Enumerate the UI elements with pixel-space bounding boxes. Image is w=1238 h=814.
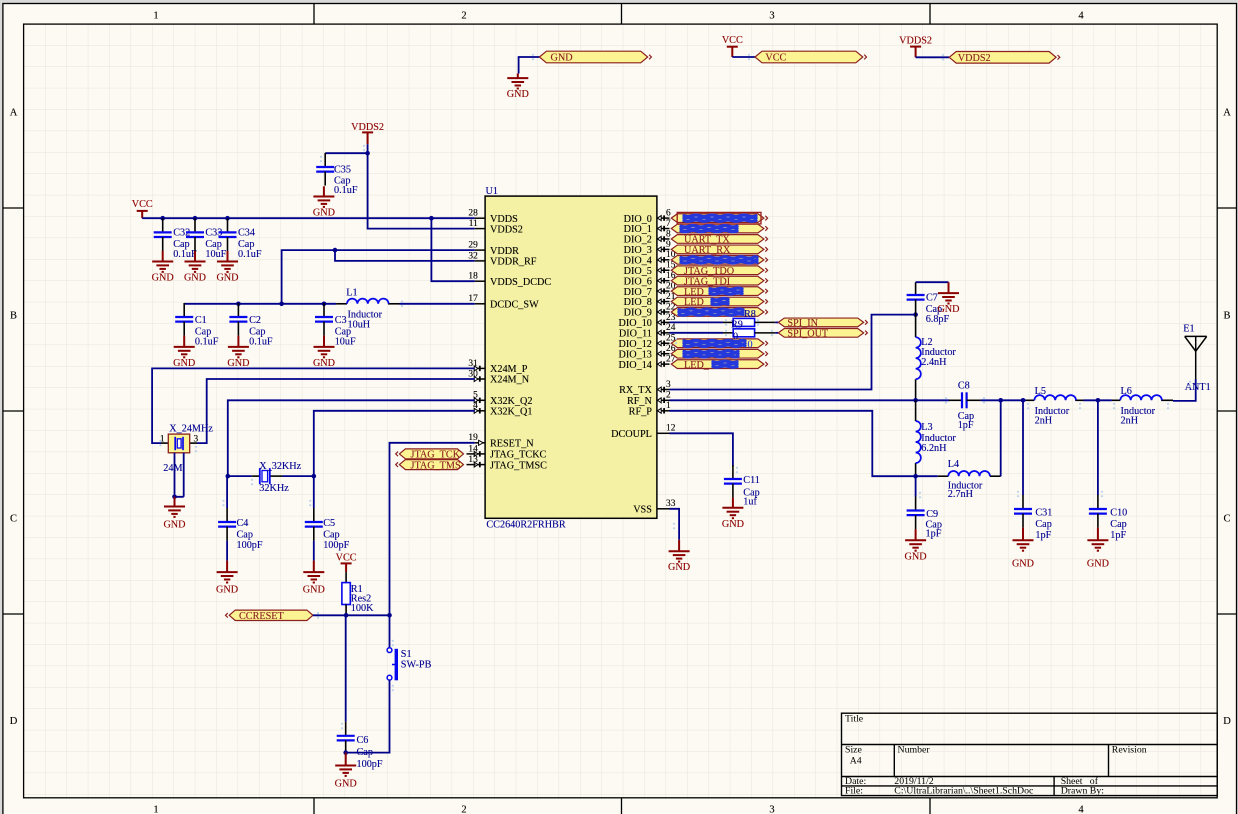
svg-text:1: 1 (153, 805, 158, 814)
pin 27 DIO_14 (657, 361, 670, 366)
svg-text:1pF: 1pF (1110, 530, 1126, 541)
svg-text:GND: GND (551, 53, 573, 64)
svg-text:JTAG_TCK: JTAG_TCK (411, 450, 461, 461)
svg-text:GND: GND (937, 304, 959, 315)
svg-text:1pF: 1pF (926, 528, 942, 539)
wire C7 to ground (916, 281, 949, 283)
ground VSS (669, 540, 690, 562)
capacitor C4 (226, 476, 228, 508)
inductor L1 (336, 303, 399, 305)
pin 4 X32K_Q1 (474, 408, 485, 413)
svg-text:6.2nH: 6.2nH (921, 443, 947, 454)
wire C35 tap (325, 152, 367, 154)
svg-text:DIO_14: DIO_14 (619, 360, 652, 371)
svg-text:GND: GND (1012, 559, 1034, 570)
wire C1 C2 C3 rail (184, 303, 336, 305)
redaction scribble DIO_12 (684, 340, 745, 346)
svg-text:Cap: Cap (1035, 519, 1051, 530)
redaction scribble DIO_9 (679, 309, 743, 315)
redaction scribble DIO_13 (684, 351, 738, 357)
pin 17 DCDC_SW (475, 303, 485, 305)
svg-text:2: 2 (666, 391, 671, 401)
resistor R1 (342, 572, 350, 615)
capacitor C35 (316, 153, 334, 186)
svg-text:GND: GND (507, 89, 529, 100)
svg-text:GND: GND (163, 520, 185, 531)
svg-text:C3: C3 (335, 315, 347, 326)
ground C33 (185, 251, 206, 272)
svg-text:LED: LED (684, 297, 704, 308)
svg-text:VDDS: VDDS (490, 214, 518, 225)
inductor L4 (938, 475, 1001, 477)
crystal X_24MHz (161, 434, 197, 453)
wire VDDR net (282, 250, 475, 304)
svg-text:VDDS2: VDDS2 (899, 36, 932, 47)
junction C33 (193, 216, 198, 221)
capacitor C9 (915, 476, 917, 496)
svg-text:JTAG_TMSC: JTAG_TMSC (490, 460, 547, 471)
port DIO_13 net label (671, 349, 767, 358)
svg-text:24: 24 (666, 323, 676, 333)
port CCRESET (226, 610, 313, 620)
ground top left of GND port (507, 74, 528, 89)
port DIO_5 net label (671, 266, 767, 275)
svg-text:4: 4 (473, 401, 478, 411)
svg-text:DIO_10: DIO_10 (619, 318, 652, 329)
pin 16 DIO_6 (657, 278, 670, 283)
junction L3 L4 RF_P (913, 474, 918, 479)
svg-text:DIO_8: DIO_8 (624, 297, 652, 308)
svg-text:D: D (1223, 716, 1231, 727)
svg-text:LED_: LED_ (684, 360, 710, 371)
svg-text:SW-PB: SW-PB (401, 660, 432, 671)
svg-text:UART_TX: UART_TX (684, 235, 730, 246)
pin 12 DCOUPL (657, 432, 670, 434)
wire L4 riser (1000, 400, 1002, 476)
svg-text:CCRESET: CCRESET (239, 611, 284, 622)
port VDDS2 top (949, 52, 1060, 64)
svg-text:3: 3 (769, 11, 774, 22)
pin 15 DIO_5 (657, 268, 670, 273)
svg-text:DCOUPL: DCOUPL (611, 429, 652, 440)
inductor L2 (915, 315, 917, 401)
svg-text:0.1uF: 0.1uF (173, 249, 197, 260)
junction VDDS2 C35 (365, 151, 370, 156)
pin 8 DIO_2 (657, 236, 670, 241)
svg-text:0.1uF: 0.1uF (334, 185, 358, 196)
svg-text:GND: GND (313, 358, 335, 369)
svg-text:B: B (1223, 311, 1230, 322)
svg-text:GND: GND (216, 273, 238, 284)
svg-text:JTAG_TCKC: JTAG_TCKC (490, 450, 547, 461)
svg-text:GND: GND (173, 358, 195, 369)
svg-text:VCC: VCC (765, 53, 786, 64)
svg-text:SPI_IN: SPI_IN (787, 318, 818, 329)
svg-text:DIO_11: DIO_11 (619, 329, 652, 340)
svg-text:ANT1: ANT1 (1185, 382, 1211, 393)
svg-text:VDDS_DCDC: VDDS_DCDC (490, 277, 551, 288)
wire X32K_Q1 (314, 411, 475, 476)
svg-text:0.1uF: 0.1uF (238, 249, 262, 260)
ground C2 (228, 336, 249, 358)
svg-text:2nH: 2nH (1121, 416, 1139, 427)
port DIO_6 net label (671, 276, 767, 285)
svg-text:29: 29 (468, 241, 478, 251)
port DIO_12 net label (671, 339, 767, 348)
junction VDDR_RF branch (333, 248, 338, 253)
ground C4 (217, 561, 238, 583)
port DIO_9 net label (671, 308, 767, 317)
svg-text:File:: File: (845, 785, 863, 796)
title block frame (842, 713, 1218, 795)
svg-text:18: 18 (468, 272, 478, 282)
pin 18 VDDS_DCDC (475, 280, 485, 282)
capacitor C6 (345, 615, 347, 722)
svg-text:1: 1 (160, 434, 165, 444)
wire X24M_N (197, 379, 475, 443)
wire VDDS2 port (916, 56, 950, 58)
wire C4 to ground (226, 541, 228, 561)
svg-text:GND: GND (303, 585, 325, 596)
svg-text:32: 32 (468, 251, 478, 261)
port VCC top (755, 51, 867, 63)
svg-text:X24M_N: X24M_N (490, 375, 530, 386)
svg-text:C10: C10 (1110, 508, 1127, 519)
svg-text:Drawn By:: Drawn By: (1061, 785, 1104, 796)
junction C3 (322, 302, 327, 307)
svg-text:DIO_13: DIO_13 (619, 349, 652, 360)
wire L1 to DCDC_SW (400, 303, 475, 305)
junction X32K left (226, 474, 231, 479)
capacitor C34 (219, 218, 237, 251)
zone dividers left (3, 207, 24, 209)
resistor R10 (723, 329, 775, 337)
redaction scribble DIO_0 (684, 215, 756, 221)
junction C34 (225, 216, 230, 221)
svg-text:GND: GND (313, 208, 335, 219)
svg-text:6.8pF: 6.8pF (926, 314, 950, 325)
ground C3 (314, 336, 335, 358)
antenna E1 (1185, 336, 1207, 379)
junction C2 (236, 302, 241, 307)
port JTAG_TMS (396, 460, 464, 470)
ground C10 (1087, 528, 1108, 551)
svg-text:DIO_6: DIO_6 (624, 276, 652, 287)
pin 26 DIO_13 (657, 351, 670, 356)
redaction scribble DIO_14 (713, 361, 737, 367)
wire VDDR_RF branch (335, 250, 475, 261)
wire L5 to L6 (1084, 399, 1112, 401)
port DIO_14 net label (671, 360, 767, 369)
svg-text:24M: 24M (163, 463, 182, 474)
ground C9 (905, 529, 926, 551)
inductor L5 (1026, 399, 1084, 401)
svg-text:3: 3 (666, 380, 671, 390)
capacitor C1 (175, 303, 193, 336)
svg-text:17: 17 (468, 294, 478, 304)
svg-text:C35: C35 (334, 165, 351, 176)
wire C5 to ground (313, 541, 315, 561)
pin 23 DIO_10 (657, 320, 670, 325)
svg-text:32KHz: 32KHz (259, 483, 289, 494)
capacitor C7 (907, 282, 925, 314)
wire S1 bottom (346, 680, 390, 752)
svg-text:12: 12 (666, 424, 676, 434)
capacitor C11 (724, 465, 742, 498)
wire L6 to antenna (1173, 379, 1196, 401)
svg-text:10uH: 10uH (348, 320, 371, 331)
svg-text:Revision: Revision (1112, 745, 1147, 756)
svg-text:0.1uF: 0.1uF (249, 337, 273, 348)
pin 6 DIO_0 (657, 215, 670, 220)
redaction scribble DIO_1 (681, 226, 737, 232)
power VCC at R1 (341, 563, 352, 572)
ground C32 (152, 251, 173, 272)
svg-text:2.4nH: 2.4nH (921, 357, 947, 368)
redaction scribble DIO_4 (681, 257, 757, 263)
capacitor C33 (186, 218, 204, 251)
pin 25 DIO_12 (657, 341, 670, 346)
junction C31 (1021, 398, 1026, 403)
svg-text:Size: Size (845, 745, 863, 756)
port DIO_2 net label (671, 235, 767, 244)
svg-text:Cap: Cap (1110, 519, 1126, 530)
wire L4 left (916, 475, 938, 477)
svg-text:VDDS2: VDDS2 (351, 122, 384, 133)
port GND top (539, 51, 651, 63)
svg-text:L5: L5 (1035, 386, 1046, 397)
svg-text:C: C (1223, 514, 1230, 525)
ground C6 (335, 753, 356, 776)
wire VDDS2 vertical to pin 11 (368, 144, 475, 228)
svg-text:DIO_9: DIO_9 (624, 308, 652, 319)
wire RX_TX to match (670, 315, 916, 390)
svg-text:CC2640R2FRHBR: CC2640R2FRHBR (486, 520, 565, 531)
wire RF_N (670, 399, 950, 401)
svg-text:1pF: 1pF (958, 420, 974, 431)
svg-text:C:\UltraLibrarian\..\Sheet1.Sc: C:\UltraLibrarian\..\Sheet1.SchDoc (894, 785, 1034, 796)
svg-text:U1: U1 (486, 186, 498, 197)
ground C5 (303, 561, 324, 583)
port JTAG_TCK (396, 449, 464, 459)
pin 24 DIO_11 (657, 330, 670, 335)
svg-text:31: 31 (468, 359, 478, 369)
port DIO_8 net label (671, 297, 767, 306)
ground C11 (722, 498, 743, 519)
pin 13 JTAG_TMSC (474, 462, 485, 467)
svg-text:2: 2 (461, 805, 466, 814)
wire DIO_10 to R9 (670, 321, 724, 323)
svg-text:DIO_12: DIO_12 (619, 339, 652, 350)
svg-text:RF_P: RF_P (629, 407, 653, 418)
svg-text:JTAG_TDI: JTAG_TDI (684, 276, 731, 287)
port DIO_3 net label (671, 245, 767, 254)
wire RF_P (670, 411, 916, 476)
svg-text:2: 2 (461, 11, 466, 22)
ground C34 (217, 251, 238, 272)
svg-text:3: 3 (769, 805, 774, 814)
wire X32K_Q2 (228, 400, 475, 476)
capacitor C32 (154, 218, 172, 251)
wire VSS to ground (670, 509, 680, 540)
svg-text:VDDS2: VDDS2 (958, 53, 991, 64)
wire GND port top (519, 57, 540, 74)
svg-text:GND: GND (722, 519, 744, 530)
wire R10 to SPI_OUT (775, 332, 778, 334)
capacitor C3 (315, 303, 333, 336)
wire C8 to L5 (981, 399, 1026, 401)
port DIO_7 net label (671, 287, 767, 296)
svg-text:B: B (10, 311, 17, 322)
junction C7 L2 (913, 312, 918, 317)
svg-text:DIO_7: DIO_7 (624, 287, 652, 298)
power VDDS2 top (910, 47, 921, 58)
svg-text:C1: C1 (195, 315, 207, 326)
svg-text:C34: C34 (238, 227, 255, 238)
wire DIO_11 to R10 (670, 332, 724, 334)
junction C6 ground (343, 750, 348, 755)
wire RESET_N (390, 443, 475, 648)
capacitor C5 (313, 476, 315, 508)
wire DCOUPL to C11 (670, 433, 733, 466)
svg-text:C4: C4 (237, 518, 249, 529)
svg-text:100pF: 100pF (357, 759, 383, 770)
svg-text:30: 30 (468, 369, 478, 379)
pin 28 VDDS (475, 217, 485, 219)
svg-text:RESET_N: RESET_N (490, 439, 534, 450)
svg-text:1: 1 (153, 11, 158, 22)
ground X_24MHz (164, 497, 185, 517)
wire VDDS rail (142, 217, 475, 219)
wire X24M ground pins (175, 453, 184, 497)
pin 1 RF_P (657, 408, 670, 413)
svg-text:X32K_Q2: X32K_Q2 (490, 396, 532, 407)
pin 7 DIO_1 (657, 226, 670, 231)
svg-text:VDDS2: VDDS2 (490, 224, 523, 235)
svg-text:1: 1 (666, 401, 671, 411)
ground C7 (938, 282, 959, 303)
svg-text:28: 28 (468, 209, 478, 219)
junction RESET node (387, 613, 392, 618)
wire VCC port (732, 56, 755, 58)
svg-text:GND: GND (1087, 559, 1109, 570)
svg-text:0: 0 (748, 339, 753, 350)
redaction scribble DIO_7 (710, 288, 742, 294)
resistor R9 (723, 318, 775, 326)
svg-text:0.1uF: 0.1uF (195, 337, 219, 348)
svg-text:VDDR_RF: VDDR_RF (490, 257, 537, 268)
pin 5 X32K_Q2 (474, 398, 485, 403)
power VCC top (727, 47, 738, 57)
switch S1 (387, 648, 396, 681)
svg-text:3: 3 (194, 434, 199, 444)
svg-text:19: 19 (468, 433, 478, 443)
svg-text:0: 0 (733, 331, 738, 342)
capacitor C2 (229, 303, 247, 336)
svg-text:100pF: 100pF (323, 540, 349, 551)
svg-text:VCC: VCC (132, 199, 153, 210)
svg-text:RF_N: RF_N (627, 396, 653, 407)
svg-text:X_32KHz: X_32KHz (259, 461, 301, 472)
ground C31 (1013, 528, 1034, 551)
svg-text:A4: A4 (850, 756, 862, 767)
power VCC left rail (137, 211, 148, 218)
pin 22 DIO_9 (657, 309, 670, 314)
svg-text:5: 5 (473, 391, 478, 401)
wire X32K rail (228, 475, 314, 477)
inductor L6 (1112, 399, 1173, 401)
svg-text:GND: GND (216, 585, 238, 596)
wire R9 to SPI_IN (775, 321, 778, 323)
zone dividers bottom (313, 798, 315, 814)
svg-text:L6: L6 (1121, 386, 1132, 397)
svg-text:10uF: 10uF (205, 249, 226, 260)
power VDDS2 at C35 (362, 132, 373, 144)
svg-text:C5: C5 (323, 518, 335, 529)
pin 29 VDDR (475, 249, 485, 251)
zone dividers right (1217, 207, 1236, 209)
svg-text:4: 4 (1078, 805, 1084, 814)
svg-text:1pF: 1pF (1035, 530, 1051, 541)
pin 9 DIO_3 (657, 247, 670, 252)
svg-text:SPI_OUT: SPI_OUT (787, 329, 829, 340)
svg-text:VCC: VCC (336, 553, 357, 564)
junction VDDS_DCDC branch (429, 216, 434, 221)
port SPI_IN (778, 318, 867, 327)
svg-text:DIO_5: DIO_5 (624, 266, 652, 277)
junction X24M ground (172, 495, 177, 500)
svg-text:VCC: VCC (722, 35, 743, 46)
wire JTAG_TMS port to pin (467, 464, 476, 466)
svg-text:DIO_3: DIO_3 (624, 245, 652, 256)
pin 19 RESET_N (475, 440, 485, 445)
svg-text:UART_RX: UART_RX (684, 245, 731, 256)
svg-text:GND: GND (184, 273, 206, 284)
wire CCRESET (313, 614, 390, 616)
svg-text:C2: C2 (249, 315, 261, 326)
svg-text:L4: L4 (948, 459, 959, 470)
pin 21 DIO_8 (657, 299, 670, 304)
svg-text:GND: GND (152, 273, 174, 284)
svg-text:GND: GND (668, 562, 690, 573)
ground C35 (313, 186, 334, 207)
pin 33 VSS (657, 508, 670, 510)
svg-text:D: D (10, 716, 18, 727)
svg-text:2nH: 2nH (1035, 416, 1053, 427)
svg-text:9: 9 (666, 240, 671, 250)
crystal X_32KHz (252, 468, 283, 484)
svg-text:C7: C7 (926, 293, 938, 304)
svg-text:14: 14 (468, 444, 478, 454)
svg-text:33: 33 (666, 499, 676, 509)
svg-text:2.7nH: 2.7nH (948, 489, 974, 500)
junction L4 riser (998, 398, 1003, 403)
svg-text:DCDC_SW: DCDC_SW (490, 300, 539, 311)
svg-text:C31: C31 (1035, 508, 1052, 519)
svg-text:VSS: VSS (633, 505, 652, 516)
junction VDDR riser (279, 302, 284, 307)
svg-text:X32K_Q1: X32K_Q1 (490, 407, 532, 418)
svg-text:A: A (1223, 108, 1231, 119)
pin 31 X24M_P (474, 366, 485, 371)
pin 11 VDDS2 (475, 228, 485, 230)
svg-text:7: 7 (666, 219, 671, 229)
svg-text:100K: 100K (351, 603, 374, 614)
pin 10 DIO_4 (657, 257, 670, 262)
pin 32 VDDR_RF (475, 260, 485, 262)
svg-text:C: C (10, 514, 17, 525)
svg-text:C11: C11 (743, 475, 760, 486)
